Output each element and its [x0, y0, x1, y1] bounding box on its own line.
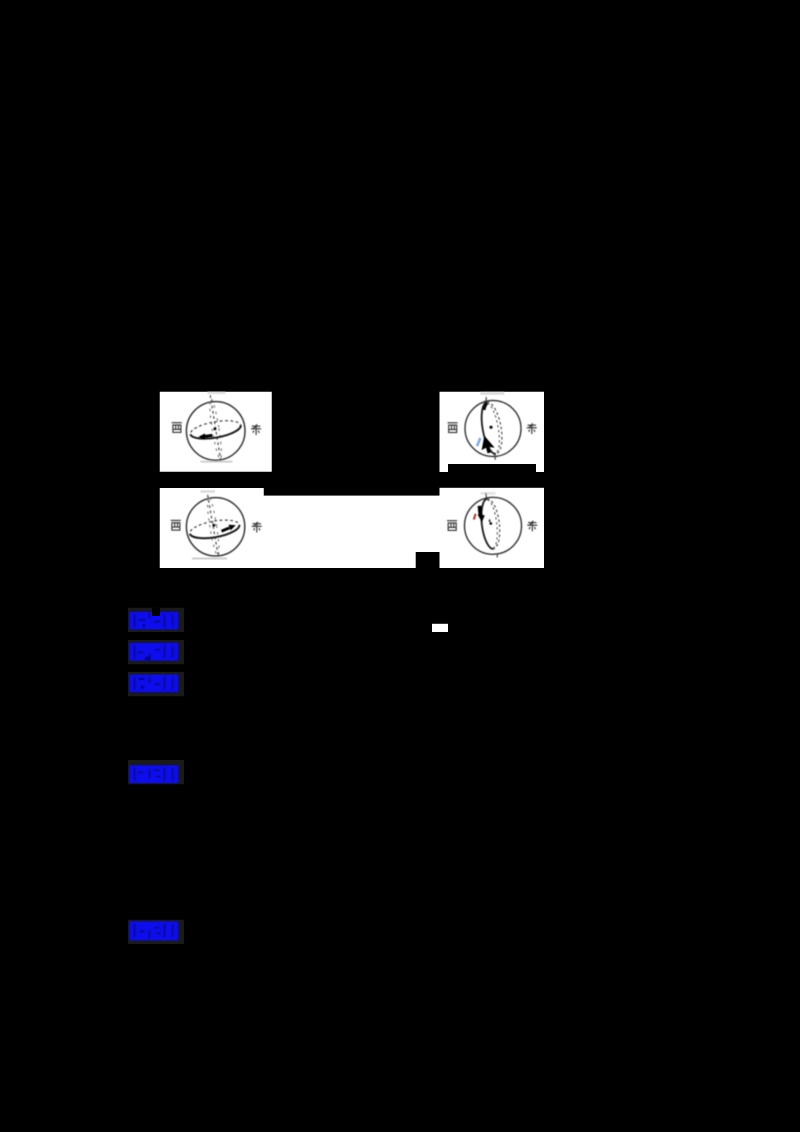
- globe D small up arrow above center: [488, 519, 491, 522]
- white image patch: box D (bottom-right globe): [440, 488, 545, 568]
- globe A rotation arrow (points west/left): [204, 435, 213, 436]
- globe D char 东 (east): [527, 521, 537, 532]
- globe A equator front (solid): [190, 425, 240, 438]
- globe C dashed axis line: [208, 495, 219, 557]
- globe A sphere outline: [186, 402, 245, 461]
- globe B small solid mark at ring top: [484, 403, 487, 410]
- globe D rotation arrow (points down): [480, 506, 481, 516]
- globe B meridian ring front (solid left side): [482, 402, 496, 454]
- white image patch: box B (top-right globe): [440, 392, 545, 472]
- blue label 5 text blob 【点睛】: [129, 921, 178, 940]
- globe C equator back (dashed): [188, 517, 240, 542]
- blue label 1 panel: [128, 608, 184, 632]
- blue label 3 panel: [128, 672, 184, 696]
- globe C center dot: [212, 524, 215, 527]
- globe D sphere outline: [465, 497, 522, 554]
- globe C rotation arrow (points east/right): [222, 528, 230, 531]
- white image patch: box A (top-left globe): [160, 392, 272, 472]
- globe A top gray smudge: [208, 392, 226, 394]
- blue label 4 text blob 【详解】: [129, 765, 178, 783]
- blue label 2 text blob 【解析】: [129, 643, 178, 661]
- globe D red slash: [474, 514, 476, 520]
- white image patch: middle strip of bottom band: [263, 496, 441, 568]
- black notch at bottom of box B: [448, 464, 536, 472]
- globe D top tick: [485, 493, 488, 498]
- globe B char 西 (west): [448, 423, 458, 433]
- black notch over label 1 top: [152, 608, 160, 616]
- globe D char 西 (west): [447, 521, 457, 531]
- globe C char 东 (east): [252, 522, 262, 533]
- globe A char 东 (east): [251, 424, 261, 435]
- globe C equator front (solid): [190, 525, 240, 538]
- globe B char 东 (east): [527, 423, 537, 434]
- globe D bottom tick: [496, 554, 499, 558]
- globe B top gray smudge: [480, 392, 504, 395]
- globe B top tick: [485, 397, 488, 402]
- globe B center dot: [489, 426, 492, 429]
- globe B blue slash: [477, 438, 480, 446]
- globe A narrow dashed meridian ellipse: [207, 398, 223, 459]
- globe A center dot: [213, 427, 216, 430]
- white answer dash: [432, 624, 448, 632]
- white image patch: box C (bottom-left globe): [160, 488, 264, 568]
- globe A bottom gray bar: [201, 461, 233, 463]
- globe C narrow dashed meridian ellipse: [205, 496, 221, 556]
- globe B meridian ring back (dashed right side): [487, 402, 502, 454]
- globe B bottom tick: [494, 455, 497, 460]
- blue label 2 panel: [128, 640, 184, 664]
- blue label 4 panel: [128, 760, 184, 784]
- globe A dashed axis line: [210, 395, 221, 463]
- black notch in bottom band: [416, 552, 440, 568]
- blue label 1 text blob 【答案】: [129, 612, 178, 630]
- globe C top gray smudge: [201, 490, 216, 492]
- globe C sphere outline: [186, 498, 244, 556]
- globe C char 西 (west): [171, 520, 181, 530]
- mouse cursor pointer: [481, 436, 496, 455]
- globe D meridian ring back (dashed right side): [487, 499, 500, 549]
- globe A char 西 (west): [172, 423, 182, 433]
- blue label 5 panel: [128, 920, 184, 944]
- globe A equator back (dashed): [189, 417, 242, 442]
- globe D meridian ring front (solid left side): [481, 499, 493, 549]
- globe D top gray smudge: [481, 492, 496, 494]
- globe C bottom gray bar: [192, 558, 227, 560]
- globe B sphere outline: [465, 401, 521, 457]
- globe D center dot: [489, 522, 492, 525]
- blue label 3 text blob 【分析】: [129, 675, 178, 693]
